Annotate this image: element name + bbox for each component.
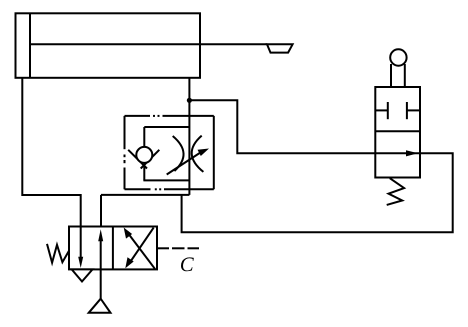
2/2 valve flow path arrow xyxy=(375,150,420,156)
throttle valve arcs xyxy=(173,136,204,172)
cylinder body xyxy=(16,13,201,78)
flow control unit chain box left edge xyxy=(124,116,126,189)
2/2 valve return spring xyxy=(387,178,404,205)
2/2 valve body xyxy=(375,87,420,178)
DCV supply triangle xyxy=(89,299,111,313)
2/2 valve roller xyxy=(390,49,406,65)
node junction dot xyxy=(187,98,192,103)
DCV right cell crossed arrow B xyxy=(125,228,153,269)
2/2 valve plunger stem xyxy=(391,64,405,87)
cylinder rod xyxy=(30,43,267,45)
check valve stem bottom xyxy=(143,166,145,181)
DCV divider xyxy=(112,227,114,270)
DCV return spring W xyxy=(47,244,69,263)
flow control unit chain box bottom edge xyxy=(125,188,214,190)
wire left cylinder port to DCV xyxy=(22,78,80,227)
DCV right cell crossed arrow A xyxy=(124,228,155,269)
check valve stem top xyxy=(143,127,145,148)
flow control unit chain box top edge xyxy=(125,115,214,117)
2/2 valve blocked port left xyxy=(375,102,388,119)
wire DCV top right port xyxy=(100,195,102,227)
2/2 valve divider xyxy=(375,130,420,132)
check valve bypass loop xyxy=(144,126,189,128)
DCV left cell up arrow xyxy=(98,229,103,269)
wire node line C horizontal xyxy=(101,194,189,196)
wire junction to 2/2 valve inlet xyxy=(189,100,375,153)
wire right cylinder port through flow unit xyxy=(188,78,190,195)
flow control unit chain box right edge xyxy=(213,116,215,189)
check valve seat xyxy=(128,150,159,169)
label C xyxy=(181,257,194,271)
DCV body xyxy=(69,227,157,270)
DCV left cell down arrow xyxy=(78,227,83,269)
tool on rod end xyxy=(267,44,293,52)
check valve ball xyxy=(136,147,152,163)
2/2 valve blocked port right xyxy=(407,102,420,119)
DCV exhaust triangle xyxy=(72,269,93,281)
wire 2/2 valve outlet down and back xyxy=(182,153,453,232)
cylinder piston xyxy=(29,13,31,78)
DCV supply line xyxy=(100,269,102,298)
throttle adjustment arrow xyxy=(167,149,209,175)
DCV pilot dashed line xyxy=(157,247,199,249)
